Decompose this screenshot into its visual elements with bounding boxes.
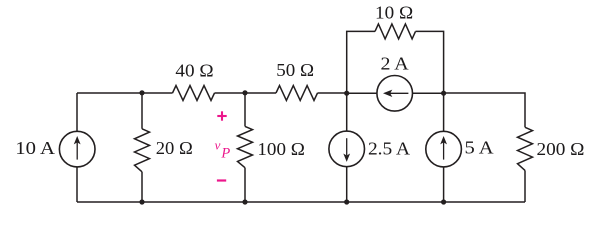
resistor R 40ohm body (173, 86, 215, 101)
svg-text:40 Ω: 40 Ω (175, 61, 213, 81)
wire 100ohm branch upper (244, 93, 246, 126)
wire 5A branch lower (443, 167, 445, 202)
wire bottom (77, 201, 525, 203)
svg-text:P: P (220, 145, 230, 161)
polarity minus sign (217, 179, 226, 181)
resistor R 50ohm body (276, 86, 318, 101)
arrow of 2A source (left) (383, 90, 408, 97)
resistor R 10ohm body (375, 24, 416, 39)
svg-text:2.5 A: 2.5 A (368, 139, 411, 159)
label vP (magenta) (215, 138, 231, 162)
node dot bottom at 5A (441, 199, 446, 204)
arrow of 5A source (up) (440, 136, 447, 160)
svg-text:200 Ω: 200 Ω (537, 139, 585, 159)
svg-text:2 A: 2 A (380, 54, 409, 74)
resistor R 200ohm body (518, 127, 533, 170)
svg-text:v: v (215, 138, 221, 153)
current source I 5A circle (426, 131, 462, 167)
wire 20ohm branch lower (141, 172, 143, 202)
polarity plus sign (217, 111, 226, 120)
node dot bottom at 100ohm (242, 199, 247, 204)
wire left edge upper (76, 93, 78, 131)
current source I 2A circle (377, 76, 413, 112)
current source I 10A circle (59, 131, 95, 167)
wire 10ohm loop left leg (347, 31, 375, 93)
wire node D to right edge (444, 93, 525, 127)
wire top-left segment (77, 92, 173, 94)
current source I 2.5A circle (329, 131, 365, 167)
wire 2A source to node D (413, 92, 444, 94)
wire between 40ohm and 50ohm (215, 92, 277, 94)
wire left edge lower (76, 167, 78, 202)
svg-text:20 Ω: 20 Ω (156, 138, 193, 158)
wire 2.5A branch lower (346, 167, 348, 202)
wire 5A branch upper (443, 93, 445, 131)
arrow of 10A source (up) (74, 136, 81, 160)
node dot bottom at 20ohm (139, 199, 144, 204)
wire 2.5A branch upper (346, 93, 348, 131)
node dot top at 20ohm (139, 90, 144, 95)
arrow of 2.5A source (down) (343, 138, 350, 162)
wire 20ohm branch upper (141, 93, 143, 129)
wire node C to 2A source (347, 92, 377, 94)
resistor R 20ohm body (135, 129, 150, 172)
wire 10ohm loop right leg (416, 31, 444, 93)
node dot top node C (344, 91, 349, 96)
svg-text:50 Ω: 50 Ω (276, 61, 314, 80)
svg-text:10 Ω: 10 Ω (375, 3, 413, 23)
svg-text:100 Ω: 100 Ω (257, 140, 304, 160)
wire 50ohm to node C (318, 92, 347, 94)
resistor R 100ohm body (238, 126, 253, 167)
node dot top at 100ohm (242, 90, 247, 95)
wire 100ohm branch lower (244, 168, 246, 202)
svg-text:10 A: 10 A (15, 139, 55, 158)
node dot top node D (441, 91, 446, 96)
svg-text:5 A: 5 A (465, 139, 494, 159)
node dot bottom at 2.5A (344, 199, 349, 204)
wire right edge lower (524, 170, 526, 202)
